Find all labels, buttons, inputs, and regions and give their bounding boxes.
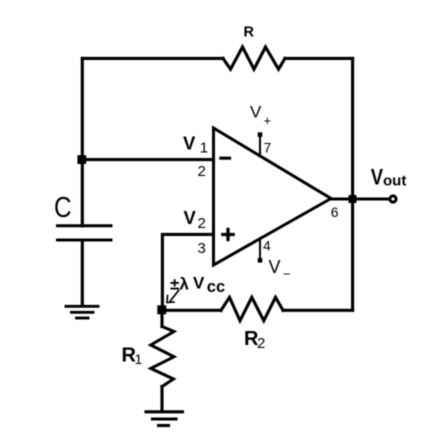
wire top-right horizontal	[285, 57, 353, 60]
svg-text:−: −	[283, 267, 291, 282]
wire left vertical	[81, 58, 84, 226]
svg-text:7: 7	[264, 139, 272, 155]
pin 4 dot	[258, 258, 263, 263]
svg-text:+: +	[264, 113, 272, 128]
resistor R	[223, 47, 285, 69]
svg-text:V: V	[183, 132, 196, 153]
svg-text:C: C	[54, 191, 72, 223]
ground (R1)	[146, 412, 183, 426]
svg-text:2: 2	[257, 335, 265, 352]
pin 7 wire	[259, 136, 261, 157]
svg-text:V: V	[371, 166, 384, 190]
svg-text:±λ: ±λ	[170, 275, 189, 294]
svg-text:V: V	[250, 102, 262, 121]
ground (capacitor)	[66, 306, 98, 318]
node A junction dot	[77, 155, 86, 164]
wire inverting input	[82, 158, 212, 161]
svg-text:4: 4	[263, 237, 271, 253]
resistor R2	[221, 297, 283, 320]
wire R1 to ground	[160, 387, 163, 411]
op-amp minus symbol	[219, 157, 231, 160]
svg-text:R: R	[244, 25, 255, 41]
output terminal circle	[390, 196, 396, 202]
svg-text:V: V	[269, 257, 281, 277]
wire R2 to right vertical	[283, 309, 353, 312]
svg-text:2: 2	[198, 215, 206, 232]
pin 4 wire	[259, 239, 261, 259]
svg-text:cc: cc	[207, 278, 225, 296]
capacitor C	[58, 226, 112, 240]
svg-text:3: 3	[198, 240, 206, 257]
wire right vertical	[351, 58, 354, 310]
svg-text:V: V	[184, 207, 197, 228]
wire node B to R2	[162, 309, 221, 312]
arrow to node B	[170, 291, 178, 301]
svg-text:out: out	[383, 173, 406, 190]
node B junction dot	[157, 305, 166, 314]
wire non-inverting input	[162, 234, 212, 311]
resistor R1	[151, 327, 174, 387]
svg-text:V: V	[193, 274, 205, 293]
svg-text:1: 1	[135, 351, 143, 367]
output node junction dot	[349, 195, 357, 203]
op-amp plus symbol	[221, 228, 235, 242]
svg-text:6: 6	[331, 204, 339, 220]
wire capacitor to ground	[81, 240, 84, 305]
wire top-left horizontal	[82, 57, 223, 60]
svg-text:1: 1	[200, 140, 208, 157]
op-amp U1	[214, 128, 332, 265]
svg-text:2: 2	[198, 163, 206, 180]
wire op-amp output	[331, 197, 389, 200]
pin 7 dot	[258, 132, 263, 137]
wire node B to R1	[160, 311, 163, 327]
